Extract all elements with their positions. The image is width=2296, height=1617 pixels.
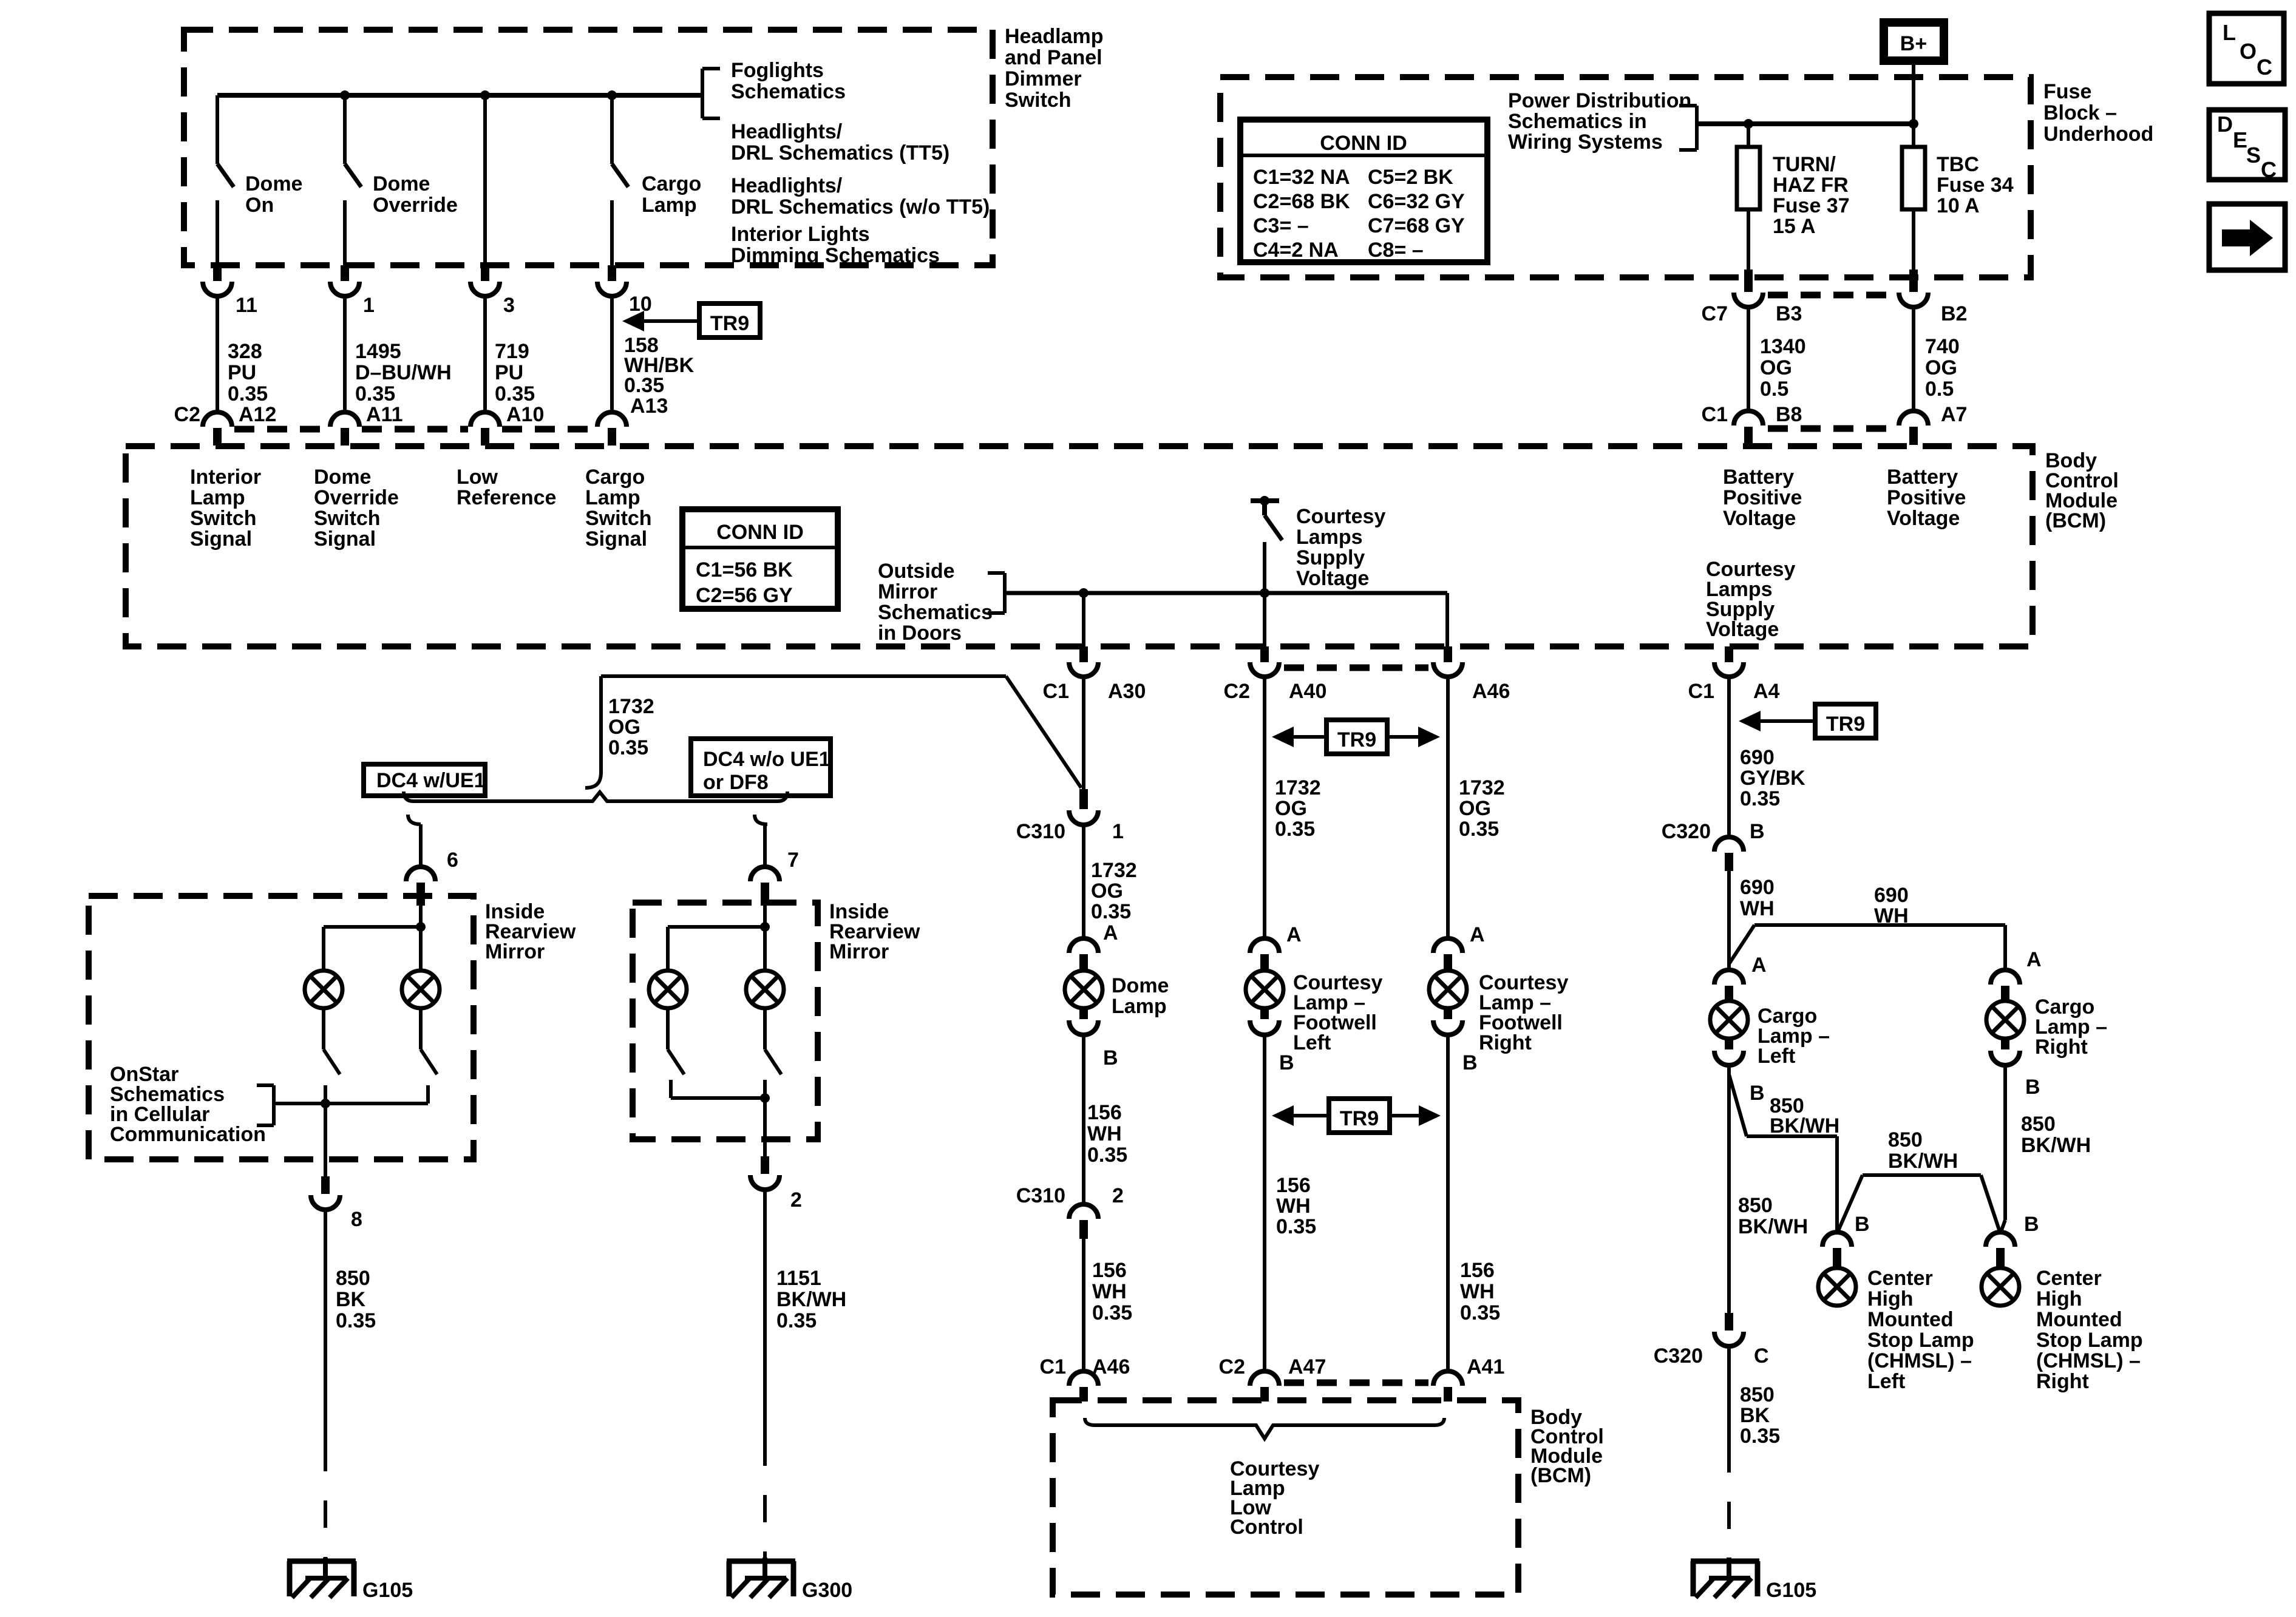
svg-text:0.35: 0.35	[228, 382, 268, 405]
connector pin A12 BCM C2	[203, 403, 276, 446]
svg-text:C1=32 NA: C1=32 NA	[1253, 166, 1350, 189]
option box DC4 w/UE1	[364, 764, 486, 796]
lamp: mirror lamp right	[402, 971, 440, 1008]
svg-text:Voltage: Voltage	[1706, 618, 1779, 641]
svg-text:TR9: TR9	[1340, 1107, 1379, 1130]
svg-text:156: 156	[1276, 1174, 1311, 1197]
connector pin A11 BCM C2	[330, 403, 403, 446]
wire: mirror ground drop	[324, 1103, 327, 1176]
svg-text:A7: A7	[1941, 403, 1967, 426]
svg-text:15 A: 15 A	[1773, 215, 1816, 238]
svg-text:Dimmer: Dimmer	[1005, 67, 1082, 90]
svg-text:Supply: Supply	[1296, 546, 1365, 569]
node: junction dome override	[340, 90, 350, 100]
svg-text:850: 850	[2021, 1113, 2056, 1136]
svg-text:Right: Right	[1479, 1031, 1532, 1054]
svg-text:High: High	[1867, 1287, 1914, 1310]
svg-text:C: C	[1754, 1344, 1769, 1368]
wire: mirror ground bus	[274, 1085, 428, 1103]
connector pin B cargo right	[1991, 1037, 2040, 1099]
svg-text:Center: Center	[1867, 1267, 1933, 1290]
svg-text:Mirror: Mirror	[829, 940, 889, 963]
legend box arrow	[2209, 204, 2285, 270]
svg-text:1732: 1732	[608, 695, 654, 718]
connector pin B dome lamp	[1069, 1007, 1118, 1070]
svg-text:WH: WH	[1276, 1195, 1311, 1218]
svg-text:Signal: Signal	[190, 527, 252, 551]
switch: Dome Override	[345, 95, 458, 267]
svg-text:B: B	[1750, 820, 1765, 843]
wire: 1732 OG from A30 to C310	[1082, 677, 1085, 789]
svg-text:Switch: Switch	[585, 507, 652, 530]
svg-text:Mirror: Mirror	[878, 580, 937, 603]
connector row dotted line C1-A7	[1768, 425, 1894, 432]
svg-text:C310: C310	[1016, 820, 1065, 843]
svg-text:C320: C320	[1662, 820, 1711, 843]
svg-text:C8= –: C8= –	[1368, 239, 1424, 262]
svg-text:Dome: Dome	[373, 172, 430, 195]
svg-text:0.35: 0.35	[1276, 1215, 1316, 1238]
connector pin B CHMSL right	[1986, 1213, 2039, 1267]
svg-text:C6=32 GY: C6=32 GY	[1368, 190, 1465, 213]
svg-text:Lamp: Lamp	[642, 194, 697, 217]
wire: switch supply bus	[217, 93, 702, 98]
connector pin 1 headlamp switch	[330, 265, 375, 412]
svg-text:0.35: 0.35	[608, 736, 648, 759]
svg-text:Right: Right	[2035, 1036, 2088, 1059]
lamp: mirror lamp left	[305, 971, 342, 1008]
lamp: CHMSL Left	[1818, 1268, 1856, 1306]
svg-text:B: B	[1855, 1213, 1870, 1236]
svg-text:E: E	[2233, 127, 2247, 152]
svg-text:Communication: Communication	[110, 1123, 266, 1146]
svg-text:A: A	[1470, 923, 1485, 946]
connector pin B2 fuse block	[1899, 269, 1967, 411]
svg-text:BK: BK	[336, 1288, 366, 1311]
svg-text:DRL Schematics (TT5): DRL Schematics (TT5)	[731, 141, 949, 164]
svg-text:TR9: TR9	[710, 312, 749, 335]
table: CONN ID BCM	[682, 509, 838, 609]
svg-text:Switch: Switch	[1005, 89, 1072, 112]
svg-text:C3= –: C3= –	[1253, 214, 1309, 237]
brace: option split	[404, 792, 787, 801]
svg-text:Voltage: Voltage	[1887, 507, 1960, 530]
svg-text:Signal: Signal	[314, 527, 376, 551]
connector pin B cargo left	[1714, 1037, 1765, 1105]
svg-text:On: On	[245, 194, 274, 217]
svg-text:740: 740	[1925, 335, 1960, 358]
svg-text:and Panel: and Panel	[1005, 46, 1102, 69]
module box: Inside Rearview Mirror (w/ OnStar)	[89, 896, 474, 1159]
svg-text:Reference: Reference	[457, 486, 556, 509]
svg-text:C2: C2	[1219, 1355, 1245, 1378]
node: junction cargo lamp	[607, 90, 617, 100]
svg-text:0.5: 0.5	[1760, 378, 1788, 401]
wire: mirror2 ground bus	[671, 1080, 765, 1098]
svg-text:(BCM): (BCM)	[1530, 1464, 1591, 1487]
svg-text:C1: C1	[1043, 680, 1069, 703]
fuse: TURN/HAZ FR Fuse 37 15 A	[1737, 124, 1850, 269]
wire: 156 WH footwell left	[1263, 1035, 1266, 1371]
svg-text:A: A	[1286, 923, 1302, 946]
reference box TR9 (footwell)	[1272, 1099, 1441, 1133]
svg-text:TBC: TBC	[1937, 153, 1979, 176]
connector pin A10 BCM C2	[470, 403, 544, 446]
connector C310 pin 2	[1016, 1184, 1124, 1239]
connector pin A41 BCM C2	[1433, 1355, 1504, 1402]
svg-text:(CHMSL) –: (CHMSL) –	[1867, 1349, 1972, 1372]
svg-text:Fuse: Fuse	[2043, 80, 2091, 103]
node: mirror2 feed junction	[760, 922, 770, 932]
svg-text:BK/WH: BK/WH	[776, 1288, 846, 1311]
svg-text:HAZ FR: HAZ FR	[1773, 174, 1849, 197]
connector pin A cargo left	[1714, 954, 1767, 1002]
svg-text:10 A: 10 A	[1937, 194, 1980, 217]
svg-text:C2=56 GY: C2=56 GY	[696, 584, 793, 607]
svg-text:Override: Override	[373, 194, 458, 217]
connector pin 2 mirror2 ground	[750, 1156, 802, 1212]
svg-text:0.35: 0.35	[1460, 1301, 1500, 1324]
lamp: Courtesy Lamp Footwell Right	[1429, 971, 1467, 1008]
svg-text:OG: OG	[1760, 356, 1792, 379]
connector pin 10 headlamp switch	[597, 265, 652, 412]
svg-text:Lamp: Lamp	[585, 486, 640, 509]
connector row dotted line C2	[234, 426, 328, 433]
svg-text:B: B	[1462, 1051, 1478, 1074]
wire: 1732 OG to footwell right lamp	[1446, 677, 1450, 938]
svg-text:D–BU/WH: D–BU/WH	[355, 361, 452, 384]
connector row dotted line C2 (A40-A46)	[1284, 665, 1428, 671]
wire: 690 WH drop to cargo left	[1727, 871, 1731, 970]
connector pin B CHMSL left	[1822, 1213, 1870, 1267]
connector C310 pin 1	[1016, 789, 1124, 843]
node: mirror2 ground junction	[760, 1093, 770, 1103]
svg-text:328: 328	[228, 340, 262, 363]
svg-text:OG: OG	[608, 716, 640, 739]
node: junction low reference	[480, 90, 490, 100]
svg-text:6: 6	[447, 849, 458, 872]
wire: 1732 OG to dome lamp	[1082, 825, 1085, 938]
lamp: mirror2 lamp left	[649, 971, 687, 1008]
connector pin 6 inside rearview mirror	[406, 849, 458, 906]
svg-text:TR9: TR9	[1826, 713, 1865, 736]
svg-text:0.35: 0.35	[495, 382, 535, 405]
node: junction A30	[1079, 588, 1089, 598]
module box: Inside Rearview Mirror (right)	[633, 903, 818, 1139]
connector C320 pin C	[1654, 1313, 1769, 1368]
power feed B+	[1880, 18, 1948, 65]
svg-text:1495: 1495	[355, 340, 401, 363]
lamp: CHMSL Right	[1982, 1268, 2019, 1306]
bracket: schematic references	[702, 69, 720, 118]
connector C320 pin B	[1662, 820, 1765, 871]
wire: 1732 OG to footwell left lamp	[1263, 677, 1266, 938]
svg-text:A: A	[1103, 921, 1118, 944]
svg-text:A47: A47	[1288, 1355, 1326, 1378]
svg-text:1: 1	[363, 294, 375, 317]
svg-text:1732: 1732	[1091, 859, 1137, 882]
svg-text:1732: 1732	[1459, 776, 1505, 799]
switch: mirror lamp right	[421, 1008, 437, 1074]
legend box DESC	[2209, 110, 2285, 182]
svg-text:D: D	[2217, 112, 2233, 137]
svg-text:0.5: 0.5	[1925, 378, 1954, 401]
svg-text:A10: A10	[506, 403, 544, 426]
connector pin 3 headlamp switch	[470, 265, 515, 412]
module box: Body Control Module (BCM)	[126, 446, 2033, 646]
svg-text:PU: PU	[495, 361, 523, 384]
svg-text:in Doors: in Doors	[878, 622, 962, 645]
connector pin A40 BCM bottom	[1224, 646, 1327, 703]
svg-text:1: 1	[1112, 820, 1124, 843]
wire: option branch right hook	[755, 815, 767, 867]
svg-text:850: 850	[1888, 1128, 1923, 1151]
svg-text:GY/BK: GY/BK	[1740, 767, 1805, 790]
connector pin B3 fuse block	[1734, 269, 1802, 411]
svg-text:0.35: 0.35	[776, 1309, 817, 1332]
svg-text:WH: WH	[1874, 904, 1909, 927]
svg-text:Cargo: Cargo	[585, 466, 645, 489]
svg-text:Cargo: Cargo	[642, 172, 701, 195]
wire: mirror2 ground drop	[763, 1098, 767, 1156]
svg-text:WH: WH	[1460, 1280, 1495, 1303]
svg-text:O: O	[2240, 39, 2257, 64]
wire: 156 WH dome lamp	[1082, 1035, 1085, 1203]
svg-text:TURN/: TURN/	[1773, 153, 1836, 176]
svg-text:BK/WH: BK/WH	[2021, 1134, 2091, 1157]
svg-text:0.35: 0.35	[1091, 900, 1131, 923]
svg-text:Power Distribution: Power Distribution	[1508, 89, 1691, 112]
svg-text:Dome: Dome	[314, 466, 371, 489]
connector pin A46 BCM bottom	[1433, 646, 1510, 703]
svg-text:Mounted: Mounted	[2036, 1308, 2122, 1331]
svg-text:A41: A41	[1467, 1355, 1504, 1378]
svg-text:B: B	[2025, 1076, 2040, 1099]
svg-text:High: High	[2036, 1287, 2082, 1310]
svg-text:Switch: Switch	[190, 507, 257, 530]
svg-text:Interior: Interior	[190, 466, 261, 489]
svg-text:C1: C1	[1688, 680, 1714, 703]
svg-text:1151: 1151	[776, 1267, 821, 1290]
svg-text:Dome: Dome	[245, 172, 302, 195]
svg-text:850: 850	[336, 1267, 370, 1290]
svg-text:Courtesy: Courtesy	[1296, 505, 1385, 528]
wire: low reference column	[483, 95, 487, 267]
switch: courtesy lamps supply tap	[1251, 496, 1385, 590]
svg-text:B+: B+	[1900, 32, 1927, 55]
svg-text:Positive: Positive	[1887, 486, 1966, 509]
connector pin A46 BCM C1	[1040, 1355, 1130, 1402]
svg-text:C4=2 NA: C4=2 NA	[1253, 239, 1339, 262]
svg-text:Override: Override	[314, 486, 399, 509]
wire: 850 BK/WH cargo right to CHMSL right	[2000, 1065, 2005, 1233]
connector pin B footwell right	[1433, 1007, 1478, 1074]
wire: courtesy supply bus inside BCM	[1005, 591, 1447, 595]
wire: 1151 BK/WH to ground	[763, 1190, 767, 1439]
wire: dashed ground lead G105 left	[324, 1444, 327, 1561]
svg-text:B8: B8	[1776, 403, 1802, 426]
svg-text:C320: C320	[1654, 1344, 1703, 1368]
svg-text:DRL Schematics (w/o TT5): DRL Schematics (w/o TT5)	[731, 195, 990, 219]
svg-text:Stop Lamp: Stop Lamp	[2036, 1329, 2143, 1352]
svg-text:Battery: Battery	[1887, 466, 1958, 489]
label: reference schematics list	[731, 59, 990, 267]
svg-text:2: 2	[790, 1188, 802, 1212]
wire: fuse supply bus	[1697, 121, 1914, 126]
svg-text:Fuse 34: Fuse 34	[1937, 174, 2014, 197]
svg-text:690: 690	[1874, 884, 1909, 907]
svg-text:DC4 w/o UE1: DC4 w/o UE1	[703, 748, 830, 771]
ground G105 (left)	[287, 1558, 413, 1602]
switch: mirror2 lamp left	[668, 1008, 684, 1074]
svg-text:C1: C1	[1702, 403, 1728, 426]
svg-text:OG: OG	[1459, 797, 1491, 820]
node: junction A40	[1260, 588, 1269, 598]
node: junction tbc fuse / B+	[1909, 119, 1918, 129]
svg-text:Wiring Systems: Wiring Systems	[1508, 131, 1663, 154]
ground G105 (right)	[1691, 1558, 1816, 1602]
svg-text:Positive: Positive	[1723, 486, 1802, 509]
svg-text:0.35: 0.35	[1092, 1301, 1132, 1324]
reference box TR9 (cargo lamp switch signal)	[622, 303, 760, 337]
connector pin A4 BCM bottom	[1688, 646, 1780, 703]
svg-text:690: 690	[1740, 876, 1775, 899]
node: mirror ground junction	[321, 1099, 330, 1108]
svg-text:BK/WH: BK/WH	[1888, 1150, 1958, 1173]
wire: 690 WH run to cargo right	[1729, 925, 2005, 970]
switch: mirror lamp left	[324, 1008, 340, 1074]
switch: mirror2 lamp right	[765, 1008, 781, 1074]
svg-text:L: L	[2223, 20, 2236, 45]
svg-text:A: A	[1751, 954, 1767, 977]
connector pin 7 inside rearview mirror	[750, 849, 799, 906]
wire: 850 BK/WH branch to CHMSL left	[1729, 1074, 1837, 1233]
svg-text:0.35: 0.35	[624, 374, 664, 397]
svg-text:Voltage: Voltage	[1723, 507, 1796, 530]
wire: 850 BK to ground right	[1727, 1346, 1731, 1445]
reference box TR9 (A40/A46)	[1272, 720, 1440, 754]
lamp: mirror2 lamp right	[746, 971, 784, 1008]
svg-text:Dome: Dome	[1112, 974, 1169, 997]
svg-text:(CHMSL) –: (CHMSL) –	[2036, 1349, 2141, 1372]
svg-text:156: 156	[1092, 1259, 1127, 1282]
svg-text:C7: C7	[1702, 302, 1728, 325]
svg-text:Schematics: Schematics	[878, 601, 993, 624]
lamp: Cargo Lamp Right	[1986, 1001, 2024, 1039]
wire: drop to A46	[1445, 593, 1449, 646]
svg-text:(BCM): (BCM)	[2045, 509, 2106, 532]
connector pin A cargo right	[1991, 948, 2042, 1002]
wire: mirror2 lamp feed	[668, 906, 765, 971]
legend box LOC	[2209, 13, 2284, 84]
svg-text:Mounted: Mounted	[1867, 1308, 1954, 1331]
switch: Cargo Lamp	[612, 95, 701, 267]
svg-text:BK/WH: BK/WH	[1770, 1114, 1839, 1137]
wire: 850 BK/WH CHMSL crossover	[1837, 1175, 2000, 1233]
svg-text:Stop Lamp: Stop Lamp	[1867, 1329, 1974, 1352]
svg-text:A30: A30	[1108, 680, 1146, 703]
svg-text:0.35: 0.35	[355, 382, 395, 405]
svg-text:CONN ID: CONN ID	[716, 521, 804, 544]
brace: courtesy lamp low control	[1085, 1418, 1444, 1439]
svg-text:8: 8	[351, 1208, 362, 1231]
connector pin 8 mirror ground	[311, 1176, 362, 1231]
lamp: Courtesy Lamp Footwell Left	[1246, 971, 1283, 1008]
connector pin A30 BCM bottom	[1043, 646, 1146, 703]
svg-text:C7=68 GY: C7=68 GY	[1368, 214, 1465, 237]
wire: 1732 OG branch run	[601, 676, 1081, 788]
svg-text:C: C	[2257, 55, 2272, 80]
svg-text:A11: A11	[366, 403, 403, 426]
svg-text:Center: Center	[2036, 1267, 2102, 1290]
svg-text:A13: A13	[630, 395, 668, 418]
svg-text:or DF8: or DF8	[703, 771, 769, 794]
svg-text:Switch: Switch	[314, 507, 381, 530]
lamp: Dome Lamp	[1065, 971, 1102, 1008]
svg-text:Signal: Signal	[585, 527, 647, 551]
fuse: TBC Fuse 34 10 A	[1902, 124, 2014, 269]
svg-text:BK/WH: BK/WH	[1738, 1215, 1808, 1238]
svg-text:2: 2	[1112, 1184, 1124, 1207]
switch: Dome On	[217, 95, 302, 267]
connector pin 11 headlamp switch	[203, 265, 257, 412]
svg-text:C: C	[2261, 157, 2277, 182]
connector pin A dome lamp	[1069, 921, 1118, 971]
svg-text:Foglights: Foglights	[731, 59, 824, 82]
wire: 690 GY/BK from A4	[1727, 677, 1731, 837]
svg-text:Lamp: Lamp	[190, 486, 245, 509]
svg-text:A40: A40	[1289, 680, 1326, 703]
svg-text:OG: OG	[1091, 880, 1123, 903]
connector row dotted line C2 lower (A47-A41)	[1284, 1380, 1428, 1386]
svg-text:B: B	[1750, 1082, 1765, 1105]
wire: 850 BK/WH cargo left to C320 C	[1727, 1065, 1731, 1313]
svg-text:690: 690	[1740, 746, 1775, 769]
svg-text:C1: C1	[1040, 1355, 1066, 1378]
svg-text:10: 10	[629, 293, 652, 316]
svg-text:719: 719	[495, 340, 529, 363]
reference box TR9 (A4)	[1739, 704, 1876, 738]
wire: 850 BK to ground	[324, 1210, 327, 1444]
svg-text:OG: OG	[1925, 356, 1957, 379]
svg-text:11: 11	[236, 294, 257, 317]
svg-text:C2: C2	[1224, 680, 1250, 703]
wire: 156 WH footwell right	[1446, 1035, 1450, 1371]
module box: Body Control Module (BCM) lower	[1053, 1400, 1518, 1595]
svg-text:BK: BK	[1740, 1404, 1770, 1427]
svg-text:WH: WH	[1092, 1280, 1127, 1303]
svg-text:PU: PU	[228, 361, 256, 384]
svg-text:850: 850	[1738, 1194, 1773, 1217]
svg-text:A4: A4	[1753, 680, 1780, 703]
svg-text:A46: A46	[1092, 1355, 1130, 1378]
svg-text:B: B	[2024, 1213, 2039, 1236]
svg-text:Interior Lights: Interior Lights	[731, 223, 870, 246]
svg-text:Mirror: Mirror	[485, 940, 545, 963]
connector pin A47 BCM C2	[1219, 1355, 1326, 1402]
lamp: Cargo Lamp Left	[1710, 1001, 1748, 1039]
svg-text:Underhood: Underhood	[2043, 123, 2153, 146]
svg-text:Left: Left	[1758, 1045, 1795, 1068]
svg-text:0.35: 0.35	[1459, 818, 1499, 841]
svg-text:A12: A12	[239, 403, 276, 426]
connector pin A footwell left	[1250, 923, 1302, 971]
svg-text:0.35: 0.35	[1275, 818, 1315, 841]
svg-text:Lamps: Lamps	[1296, 526, 1363, 549]
svg-text:0.35: 0.35	[1740, 1425, 1780, 1448]
wire: option branch left hook	[408, 815, 421, 867]
svg-text:A: A	[2026, 948, 2042, 971]
